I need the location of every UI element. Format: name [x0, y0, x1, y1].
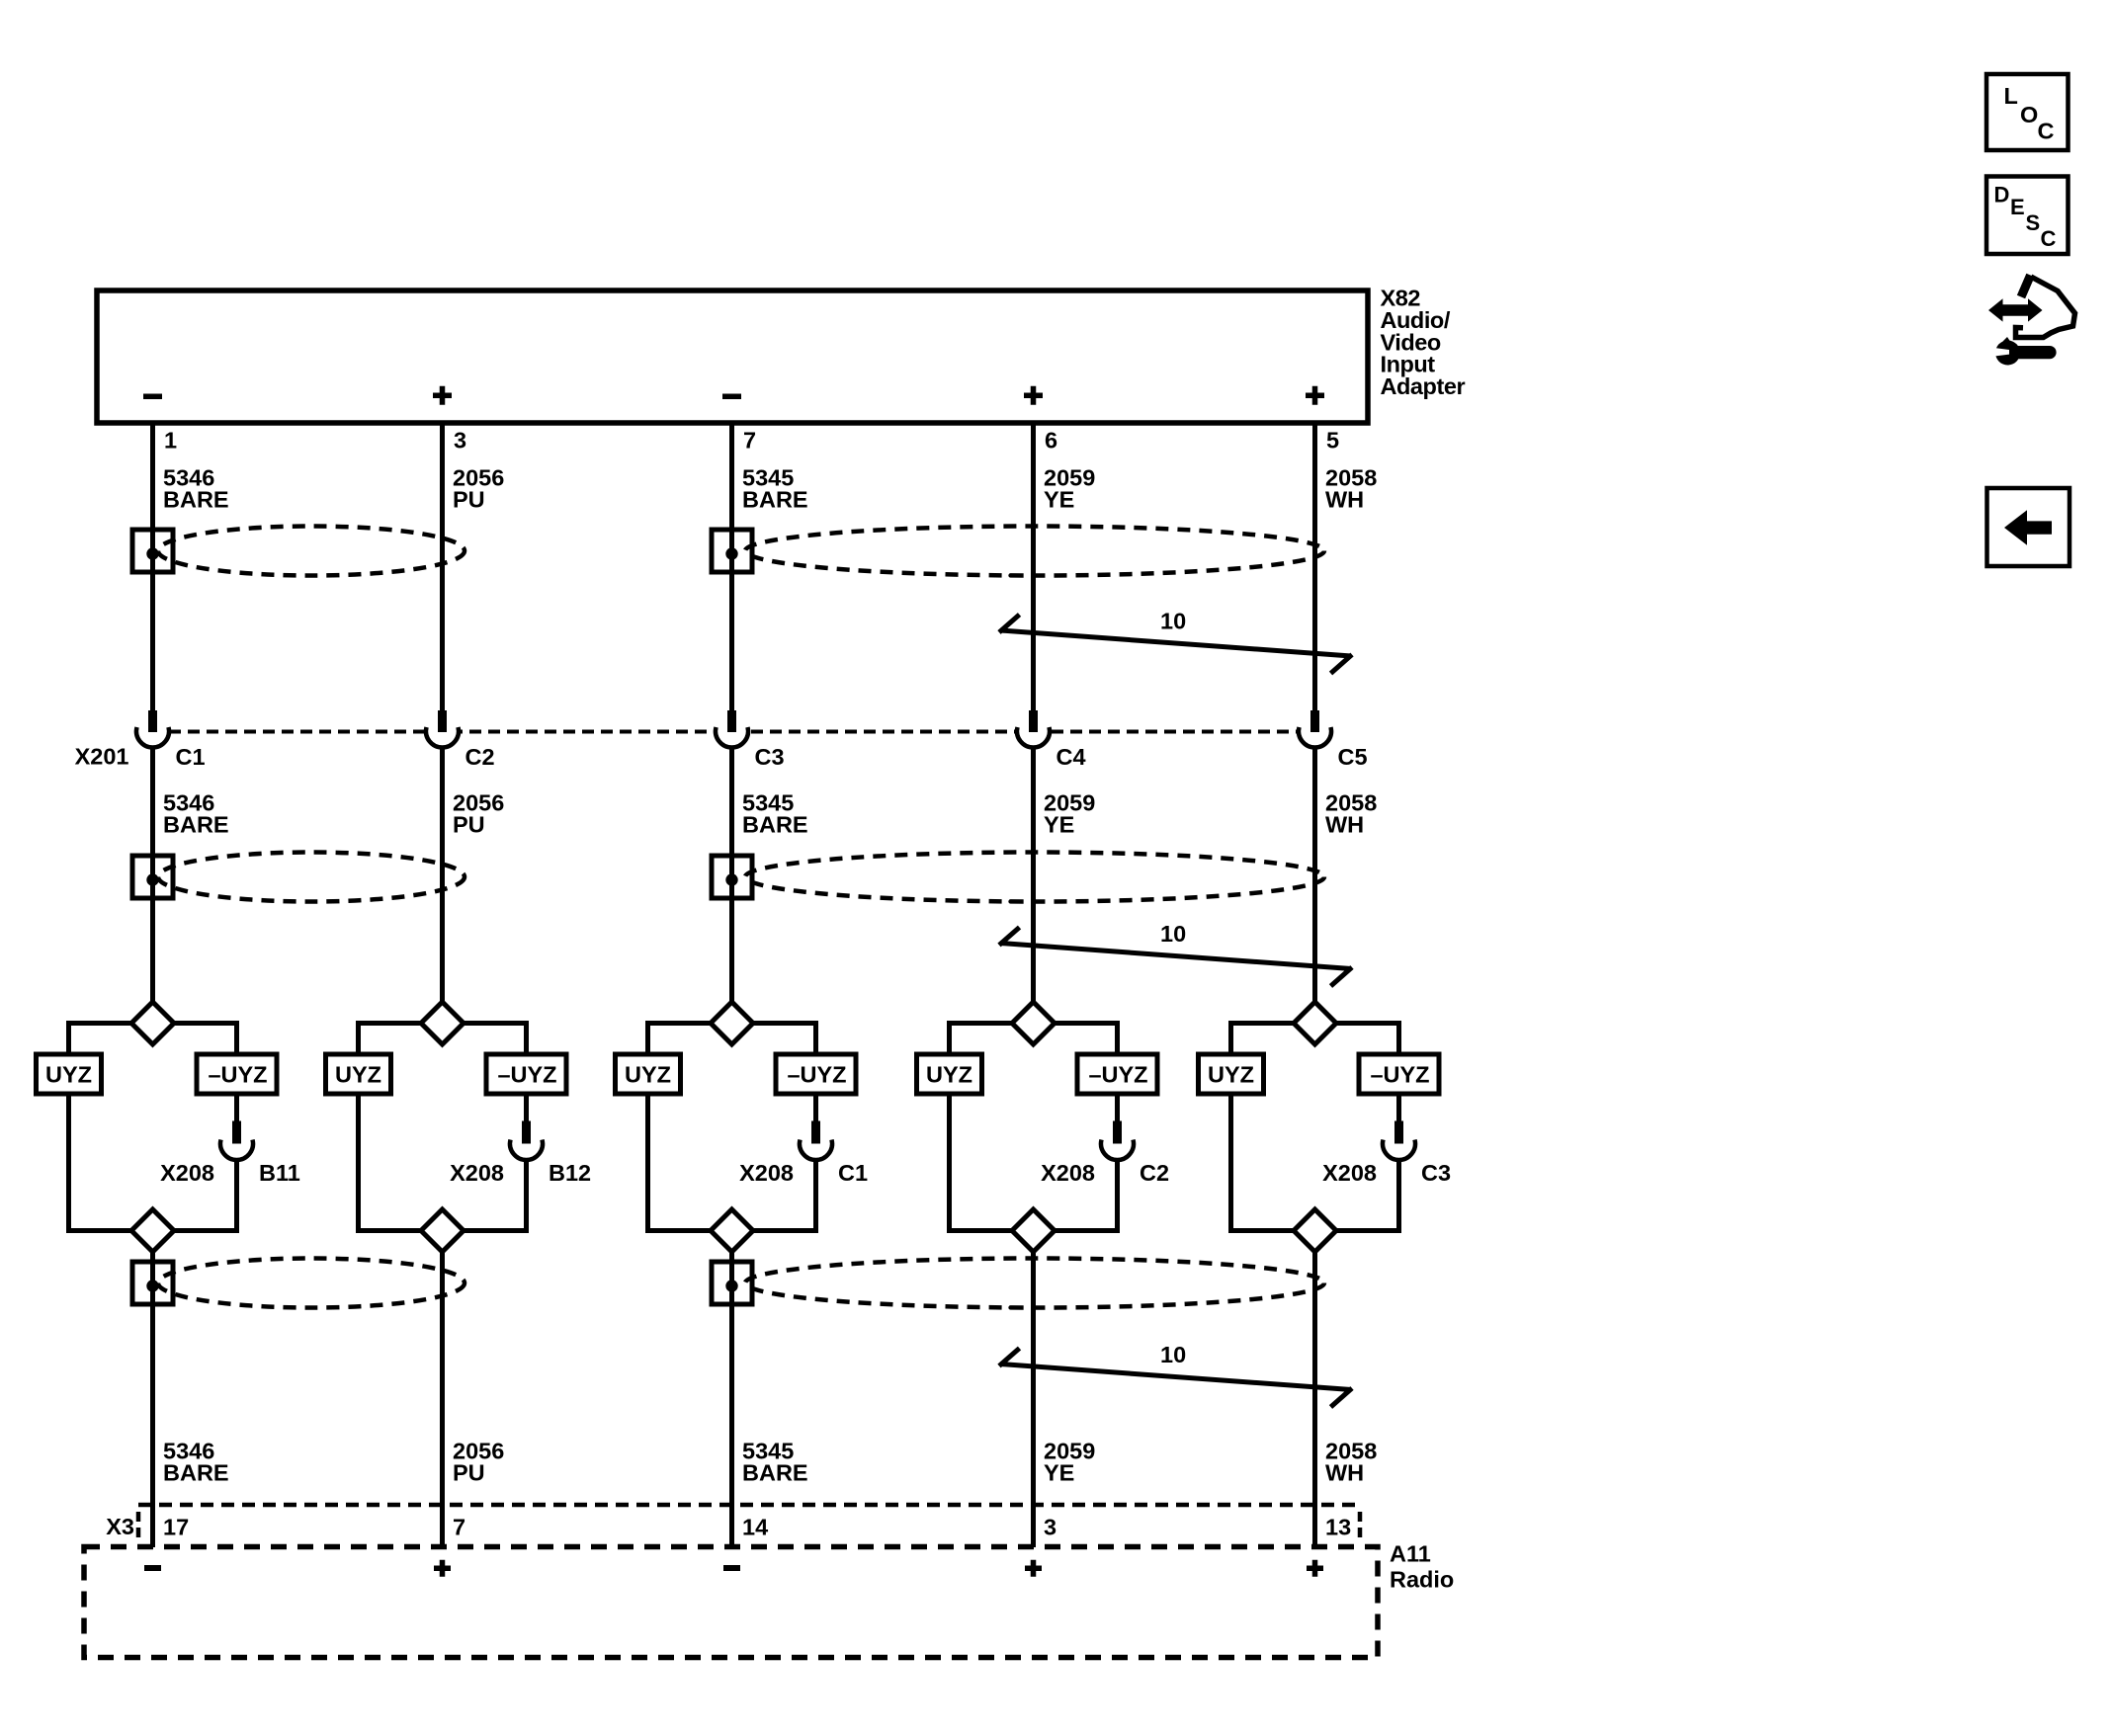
- wire label 2058 WH row 1: [1325, 465, 1377, 513]
- wire 2056 PU middle segment (X201 to splice): [440, 748, 445, 1003]
- connector X201 C2 terminal: [426, 710, 459, 748]
- X82 pin 1 polarity sign -: [143, 394, 162, 400]
- wire branch upper-left (to UYZ): [950, 1021, 1013, 1054]
- A11 radio pin 13 polarity sign +: [1307, 1560, 1323, 1577]
- svg-text:C: C: [2038, 119, 2055, 144]
- svg-text:BARE: BARE: [742, 1460, 808, 1486]
- wire 5346 BARE middle segment (X201 to splice): [150, 748, 155, 1003]
- wire 2058 WH lower segment (splice to A11 radio pin 13): [1312, 1251, 1317, 1547]
- shield drain symbol on wire 5345 BARE (row 3): [712, 1262, 752, 1304]
- svg-text:PU: PU: [453, 1460, 485, 1486]
- svg-text:UYZ: UYZ: [45, 1062, 92, 1088]
- inline connector UYZ box (group 2): [326, 1054, 391, 1094]
- shield ellipse pair 1 (row 2): [158, 853, 465, 902]
- A11 radio pin 3 polarity sign +: [1025, 1560, 1042, 1577]
- inline connector UYZ box (group 3): [616, 1054, 681, 1094]
- wire 2059 YE upper segment (X82 pin 6 to X201): [1031, 426, 1036, 711]
- icon LOC box: [1986, 74, 2069, 150]
- wire branch upper-left (to UYZ): [648, 1021, 712, 1054]
- splice diamond upper (wire 5345): [711, 1002, 753, 1044]
- wire right branch lower (X208 to splice): [1336, 1161, 1399, 1233]
- splice diamond lower (wire 2058): [1294, 1209, 1336, 1252]
- wire 2056 PU lower segment (splice to A11 radio pin 7): [440, 1251, 445, 1547]
- inline connector -UYZ box (group 1): [197, 1054, 277, 1094]
- wire label 2059 YE row 1: [1044, 465, 1095, 513]
- svg-text:YE: YE: [1044, 812, 1074, 838]
- wire right branch lower (X208 to splice): [174, 1161, 237, 1233]
- A11 radio pin 14 polarity sign -: [723, 1565, 740, 1571]
- connector X201 C3 terminal: [716, 710, 748, 748]
- svg-text:YE: YE: [1044, 487, 1074, 513]
- svg-text:C1: C1: [838, 1160, 868, 1186]
- connector X208 C2 terminal: [1101, 1121, 1134, 1161]
- svg-text:WH: WH: [1325, 487, 1364, 513]
- wire 5345 BARE middle segment (X201 to splice): [729, 748, 734, 1003]
- wire branch upper-right (to -UYZ): [174, 1021, 237, 1054]
- svg-text:WH: WH: [1325, 812, 1364, 838]
- svg-text:7: 7: [743, 428, 756, 454]
- wire label 5346 BARE row 1: [163, 465, 229, 513]
- wire left branch lower (UYZ to splice): [359, 1094, 422, 1233]
- connector X201 C1 terminal: [136, 710, 169, 748]
- svg-text:UYZ: UYZ: [926, 1062, 972, 1088]
- svg-text:L: L: [2004, 83, 2018, 109]
- wire 2058 WH upper segment (X82 pin 5 to X201): [1312, 426, 1317, 711]
- wire branch upper-left (to UYZ): [359, 1021, 422, 1054]
- svg-text:C3: C3: [755, 744, 785, 770]
- svg-text:S: S: [2026, 210, 2041, 235]
- X82 pin 7 polarity sign -: [722, 394, 741, 400]
- icon back arrow box: [1987, 488, 2070, 566]
- icon reroute/repair (double arrow, hand outline, wrench): [1988, 276, 2075, 366]
- connector X208 B11 terminal: [220, 1121, 253, 1161]
- svg-text:C5: C5: [1338, 744, 1368, 770]
- wire 5345 BARE upper segment (X82 pin 7 to X201): [729, 426, 734, 711]
- wire 5346 BARE upper segment (X82 pin 1 to X201): [150, 426, 155, 711]
- wire label 2058 WH row 3: [1325, 1439, 1377, 1486]
- svg-text:X208: X208: [1041, 1160, 1095, 1186]
- wire 2058 WH middle segment (X201 to splice): [1312, 748, 1317, 1003]
- svg-text:13: 13: [1325, 1515, 1351, 1540]
- twisted pair marker 10 (row 2): [999, 921, 1352, 986]
- icon DESC box: [1986, 177, 2069, 255]
- svg-text:10: 10: [1160, 609, 1186, 634]
- svg-text:UYZ: UYZ: [625, 1062, 671, 1088]
- svg-text:B12: B12: [549, 1160, 591, 1186]
- wire left branch lower (UYZ to splice): [69, 1094, 132, 1233]
- svg-text:–UYZ: –UYZ: [208, 1062, 267, 1088]
- wire left branch lower (UYZ to splice): [1231, 1094, 1295, 1233]
- svg-text:10: 10: [1160, 1342, 1186, 1367]
- svg-text:X208: X208: [450, 1160, 504, 1186]
- svg-text:PU: PU: [453, 487, 485, 513]
- svg-text:3: 3: [454, 428, 466, 454]
- shield drain symbol on wire 5345 BARE (row 2): [712, 856, 752, 898]
- X82 pin 6 polarity sign +: [1024, 386, 1043, 405]
- svg-text:D: D: [1994, 183, 2010, 207]
- inline connector -UYZ box (group 3): [776, 1054, 856, 1094]
- wire 5345 BARE lower segment (splice to A11 radio pin 14): [729, 1251, 734, 1547]
- shield ellipse pair 2 (row 3): [745, 1259, 1324, 1308]
- svg-text:X208: X208: [739, 1160, 794, 1186]
- wire branch upper-right (to -UYZ): [753, 1021, 816, 1054]
- svg-text:14: 14: [742, 1515, 768, 1540]
- shield drain symbol on wire 5346 BARE (row 1): [132, 530, 173, 572]
- splice diamond lower (wire 5345): [711, 1209, 753, 1252]
- svg-text:–UYZ: –UYZ: [787, 1062, 846, 1088]
- svg-text:C1: C1: [176, 744, 206, 770]
- svg-text:B11: B11: [259, 1160, 300, 1186]
- twisted pair marker 10 (row 3): [999, 1342, 1352, 1407]
- wire 2056 PU upper segment (X82 pin 3 to X201): [440, 426, 445, 711]
- svg-text:7: 7: [453, 1515, 465, 1540]
- svg-text:–UYZ: –UYZ: [1370, 1062, 1429, 1088]
- svg-text:Adapter: Adapter: [1381, 373, 1466, 399]
- svg-text:PU: PU: [453, 812, 485, 838]
- inline connector UYZ box (group 5): [1199, 1054, 1264, 1094]
- svg-text:UYZ: UYZ: [335, 1062, 381, 1088]
- connector X201 C5 terminal: [1299, 710, 1331, 748]
- shield drain symbol on wire 5346 BARE (row 3): [132, 1262, 173, 1304]
- wire branch upper-right (to -UYZ): [1055, 1021, 1118, 1054]
- wire label 2056 PU row 1: [453, 465, 504, 513]
- svg-text:A11: A11: [1390, 1541, 1431, 1567]
- svg-text:5: 5: [1326, 428, 1339, 454]
- wire branch upper-left (to UYZ): [69, 1021, 132, 1054]
- wire right branch (-UYZ to X208 C2): [1115, 1094, 1120, 1121]
- wire label 2058 WH row 2: [1325, 790, 1377, 838]
- splice diamond upper (wire 5346): [131, 1002, 174, 1044]
- wire 2059 YE middle segment (X201 to splice): [1031, 748, 1036, 1003]
- svg-text:C: C: [2041, 226, 2057, 251]
- splice diamond lower (wire 5346): [131, 1209, 174, 1252]
- shield ellipse pair 2 (row 2): [745, 853, 1324, 902]
- inline connector -UYZ box (group 5): [1359, 1054, 1439, 1094]
- svg-text:X201: X201: [75, 744, 129, 770]
- svg-text:3: 3: [1044, 1515, 1056, 1540]
- svg-text:17: 17: [163, 1515, 189, 1540]
- wire right branch lower (X208 to splice): [753, 1161, 816, 1233]
- wire label 2059 YE row 3: [1044, 1439, 1095, 1486]
- splice diamond lower (wire 2056): [421, 1209, 464, 1252]
- connector X208 C3 terminal: [1383, 1121, 1415, 1161]
- wire branch upper-left (to UYZ): [1231, 1021, 1295, 1054]
- wire label 5345 BARE row 1: [742, 465, 808, 513]
- svg-text:1: 1: [164, 428, 177, 454]
- inline connector -UYZ box (group 4): [1077, 1054, 1157, 1094]
- svg-text:X208: X208: [1322, 1160, 1377, 1186]
- svg-text:X208: X208: [160, 1160, 214, 1186]
- svg-text:O: O: [2020, 102, 2038, 127]
- wire right branch lower (X208 to splice): [464, 1161, 527, 1233]
- X82 pin 3 polarity sign +: [433, 386, 452, 405]
- label X82 Audio/Video Input Adapter: [1381, 286, 1466, 400]
- inline connector -UYZ box (group 2): [486, 1054, 566, 1094]
- component X82 Audio/Video Input Adapter box: [97, 290, 1368, 423]
- splice diamond upper (wire 2058): [1294, 1002, 1336, 1044]
- wire label 5345 BARE row 3: [742, 1439, 808, 1486]
- wire right branch lower (X208 to splice): [1055, 1161, 1118, 1233]
- svg-text:10: 10: [1160, 921, 1186, 947]
- shield ellipse pair 2 (row 1): [745, 527, 1324, 576]
- connector X201 dashed interconnect line: [169, 730, 1299, 734]
- splice diamond upper (wire 2056): [421, 1002, 464, 1044]
- connector X201 C4 terminal: [1017, 710, 1050, 748]
- svg-text:–UYZ: –UYZ: [1088, 1062, 1147, 1088]
- splice diamond upper (wire 2059): [1012, 1002, 1055, 1044]
- svg-text:C3: C3: [1421, 1160, 1451, 1186]
- wire left branch lower (UYZ to splice): [648, 1094, 712, 1233]
- svg-text:Radio: Radio: [1390, 1567, 1454, 1593]
- svg-text:X3: X3: [106, 1514, 134, 1539]
- inline connector UYZ box (group 4): [917, 1054, 982, 1094]
- svg-text:BARE: BARE: [742, 812, 808, 838]
- svg-text:YE: YE: [1044, 1460, 1074, 1486]
- wire right branch (-UYZ to X208 C1): [813, 1094, 818, 1121]
- connector X208 C1 terminal: [800, 1121, 832, 1161]
- svg-text:C2: C2: [465, 744, 495, 770]
- svg-text:UYZ: UYZ: [1208, 1062, 1254, 1088]
- wire label 5346 BARE row 3: [163, 1439, 229, 1486]
- shield drain symbol on wire 5346 BARE (row 2): [132, 856, 173, 898]
- svg-text:BARE: BARE: [742, 487, 808, 513]
- connector X3 dashed line: [138, 1503, 1360, 1508]
- svg-text:–UYZ: –UYZ: [497, 1062, 556, 1088]
- wire branch upper-right (to -UYZ): [1336, 1021, 1399, 1054]
- svg-text:BARE: BARE: [163, 812, 229, 838]
- wire right branch (-UYZ to X208 B11): [234, 1094, 239, 1121]
- svg-text:C2: C2: [1140, 1160, 1169, 1186]
- shield ellipse pair 1 (row 3): [158, 1259, 465, 1308]
- connector X3 left end tick: [136, 1512, 141, 1539]
- X82 pin 5 polarity sign +: [1306, 386, 1324, 405]
- A11 radio pin 17 polarity sign -: [144, 1565, 161, 1571]
- A11 radio pin 7 polarity sign +: [434, 1560, 451, 1577]
- wire label 2059 YE row 2: [1044, 790, 1095, 838]
- connector X3 right end tick: [1358, 1512, 1363, 1539]
- svg-text:BARE: BARE: [163, 1460, 229, 1486]
- wire 5346 BARE lower segment (splice to A11 radio pin 17): [150, 1251, 155, 1547]
- svg-text:C4: C4: [1056, 744, 1086, 770]
- shield drain symbol on wire 5345 BARE (row 1): [712, 530, 752, 572]
- splice diamond lower (wire 2059): [1012, 1209, 1055, 1252]
- inline connector UYZ box (group 1): [37, 1054, 102, 1094]
- wire label 5345 BARE row 2: [742, 790, 808, 838]
- wire right branch (-UYZ to X208 C3): [1396, 1094, 1401, 1121]
- wire right branch (-UYZ to X208 B12): [524, 1094, 529, 1121]
- wire 2059 YE lower segment (splice to A11 radio pin 3): [1031, 1251, 1036, 1547]
- shield ellipse pair 1 (row 1): [158, 527, 465, 576]
- component A11 Radio dashed box: [84, 1547, 1378, 1658]
- wire branch upper-right (to -UYZ): [464, 1021, 527, 1054]
- wire label 2056 PU row 3: [453, 1439, 504, 1486]
- connector X208 B12 terminal: [510, 1121, 543, 1161]
- svg-text:E: E: [2010, 195, 2025, 219]
- wire left branch lower (UYZ to splice): [950, 1094, 1013, 1233]
- wire label 2056 PU row 2: [453, 790, 504, 838]
- svg-text:BARE: BARE: [163, 487, 229, 513]
- svg-text:6: 6: [1045, 428, 1057, 454]
- twisted pair marker 10 (row 1): [999, 609, 1352, 674]
- svg-text:WH: WH: [1325, 1460, 1364, 1486]
- label A11 Radio: [1390, 1541, 1454, 1593]
- wire label 5346 BARE row 2: [163, 790, 229, 838]
